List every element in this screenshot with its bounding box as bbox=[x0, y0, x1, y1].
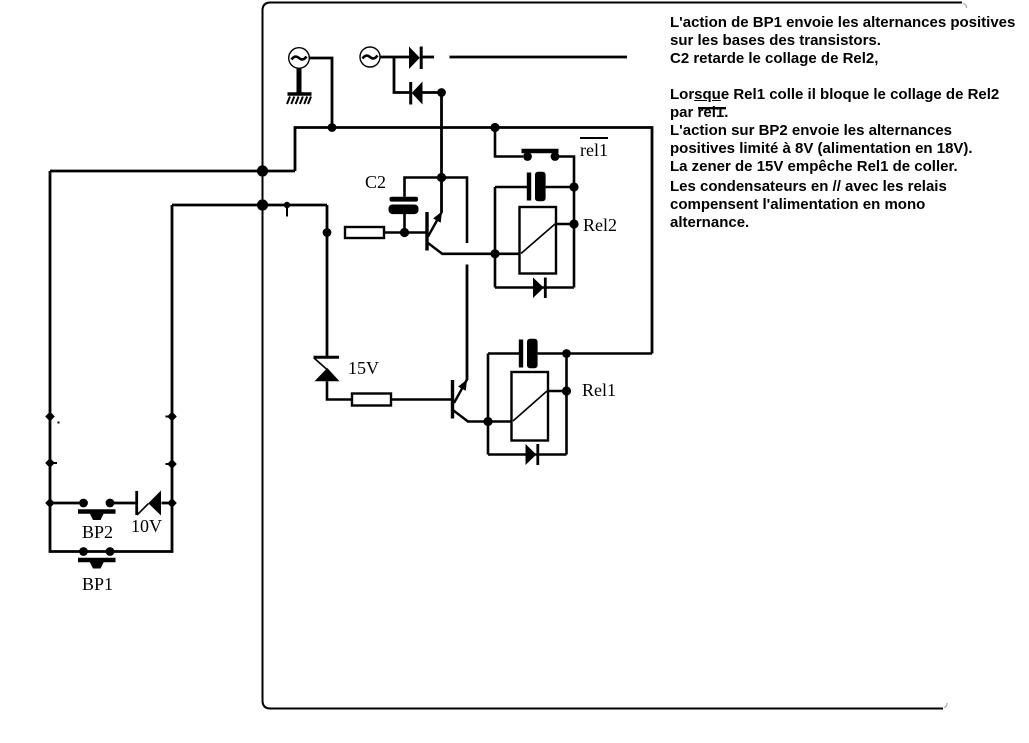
junction R1 left bbox=[323, 228, 332, 237]
junction Rel2 out bbox=[569, 219, 578, 228]
wire BP2 row bbox=[50, 502, 172, 505]
wire D1 output stub bbox=[422, 56, 434, 59]
node rail A2 bbox=[45, 458, 57, 468]
junction C2 top bbox=[437, 173, 446, 182]
node rail B3 bbox=[167, 498, 177, 508]
transistor Q1 bbox=[425, 212, 442, 255]
wire BP1 row bbox=[84, 550, 111, 553]
wire right rail bbox=[110, 205, 172, 552]
label BP1 bbox=[82, 574, 113, 595]
junction Rel1 loop left bbox=[483, 417, 492, 426]
diode D1 bbox=[409, 47, 421, 70]
junction bus to rel1 switch bbox=[490, 123, 499, 132]
label 15V bbox=[348, 358, 379, 379]
node frame upper bbox=[257, 165, 268, 176]
relay coil Rel1 bbox=[512, 372, 567, 441]
junction cap Rel1 bbox=[562, 349, 571, 358]
wire Rel2 bottom bbox=[495, 286, 574, 289]
diode D4 bbox=[526, 444, 538, 465]
wire left feed upper bbox=[50, 170, 295, 173]
node stub bbox=[284, 202, 290, 217]
label Rel2 bbox=[583, 215, 617, 236]
junction G1 bus bbox=[328, 123, 337, 132]
wire output top bbox=[450, 56, 628, 59]
zener D5 10V bbox=[137, 491, 161, 516]
relay Rel2 loop bbox=[494, 187, 497, 288]
resistor R2 bbox=[352, 394, 391, 406]
wire Q1 collector bbox=[442, 253, 520, 256]
wire left feed lower bbox=[172, 204, 327, 207]
frame rounded border bbox=[263, 3, 963, 709]
wire crossover down to Q2 emitter bbox=[466, 265, 469, 381]
net rel1-bar overline in note bbox=[698, 107, 726, 109]
stray dot bbox=[58, 422, 60, 424]
wire node down to T1 emitter bbox=[440, 93, 443, 213]
node rail A1 bbox=[45, 412, 55, 422]
junction cap Rel2 bbox=[569, 182, 578, 191]
node rail A3 bbox=[45, 498, 55, 508]
frame clipped corner fragments bbox=[963, 4, 967, 9]
relay coil Rel2 bbox=[520, 207, 575, 274]
junction Rel1 out bbox=[562, 386, 571, 395]
wire D2 to node bbox=[423, 91, 442, 94]
junction Rel2 loop left bbox=[490, 249, 499, 258]
wire Q2 collector bbox=[467, 420, 512, 423]
node rail B1 bbox=[166, 412, 177, 422]
push button BP1 bbox=[78, 547, 116, 568]
wire Rel1 bottom bbox=[488, 453, 567, 456]
label 10V bbox=[131, 516, 162, 537]
ground bbox=[287, 68, 312, 104]
AC source G1 bbox=[289, 48, 310, 69]
label BP2 bbox=[82, 522, 113, 543]
label rel1 bbox=[580, 137, 608, 161]
capacitor C2 bbox=[389, 178, 468, 244]
node frame lower bbox=[257, 199, 268, 210]
wire R2 to Q2 base bbox=[391, 398, 451, 401]
junction C2 bottom bbox=[400, 228, 409, 237]
wire main horizontal bus bbox=[295, 128, 652, 354]
wire Rel1 right bbox=[565, 354, 568, 455]
wire left rail bbox=[50, 171, 84, 552]
label Rel1 bbox=[582, 380, 616, 401]
resistor R1 bbox=[345, 227, 384, 238]
wire G1 to node bbox=[309, 58, 332, 128]
wire R1 to T1 base bbox=[384, 231, 426, 234]
node rail B2 bbox=[166, 459, 177, 469]
diode D3 bbox=[533, 278, 545, 299]
AC source G2 bbox=[360, 47, 380, 67]
diode D2 bbox=[411, 82, 423, 105]
wire branch to D2 bbox=[394, 57, 410, 93]
relay Rel1 loop bbox=[487, 354, 490, 455]
capacitor C4 bbox=[488, 339, 652, 368]
label C2 bbox=[365, 172, 386, 193]
switch rel1 (NC contact) bbox=[495, 128, 574, 288]
transistor Q2 bbox=[451, 380, 468, 422]
wire to R1 and zener bbox=[326, 205, 329, 357]
junction D2 out bbox=[437, 88, 446, 97]
wire G2 to D1 bbox=[380, 56, 409, 59]
zener D6 15V bbox=[314, 357, 353, 399]
capacitor C3 bbox=[495, 172, 574, 201]
push button BP2 bbox=[78, 499, 116, 520]
